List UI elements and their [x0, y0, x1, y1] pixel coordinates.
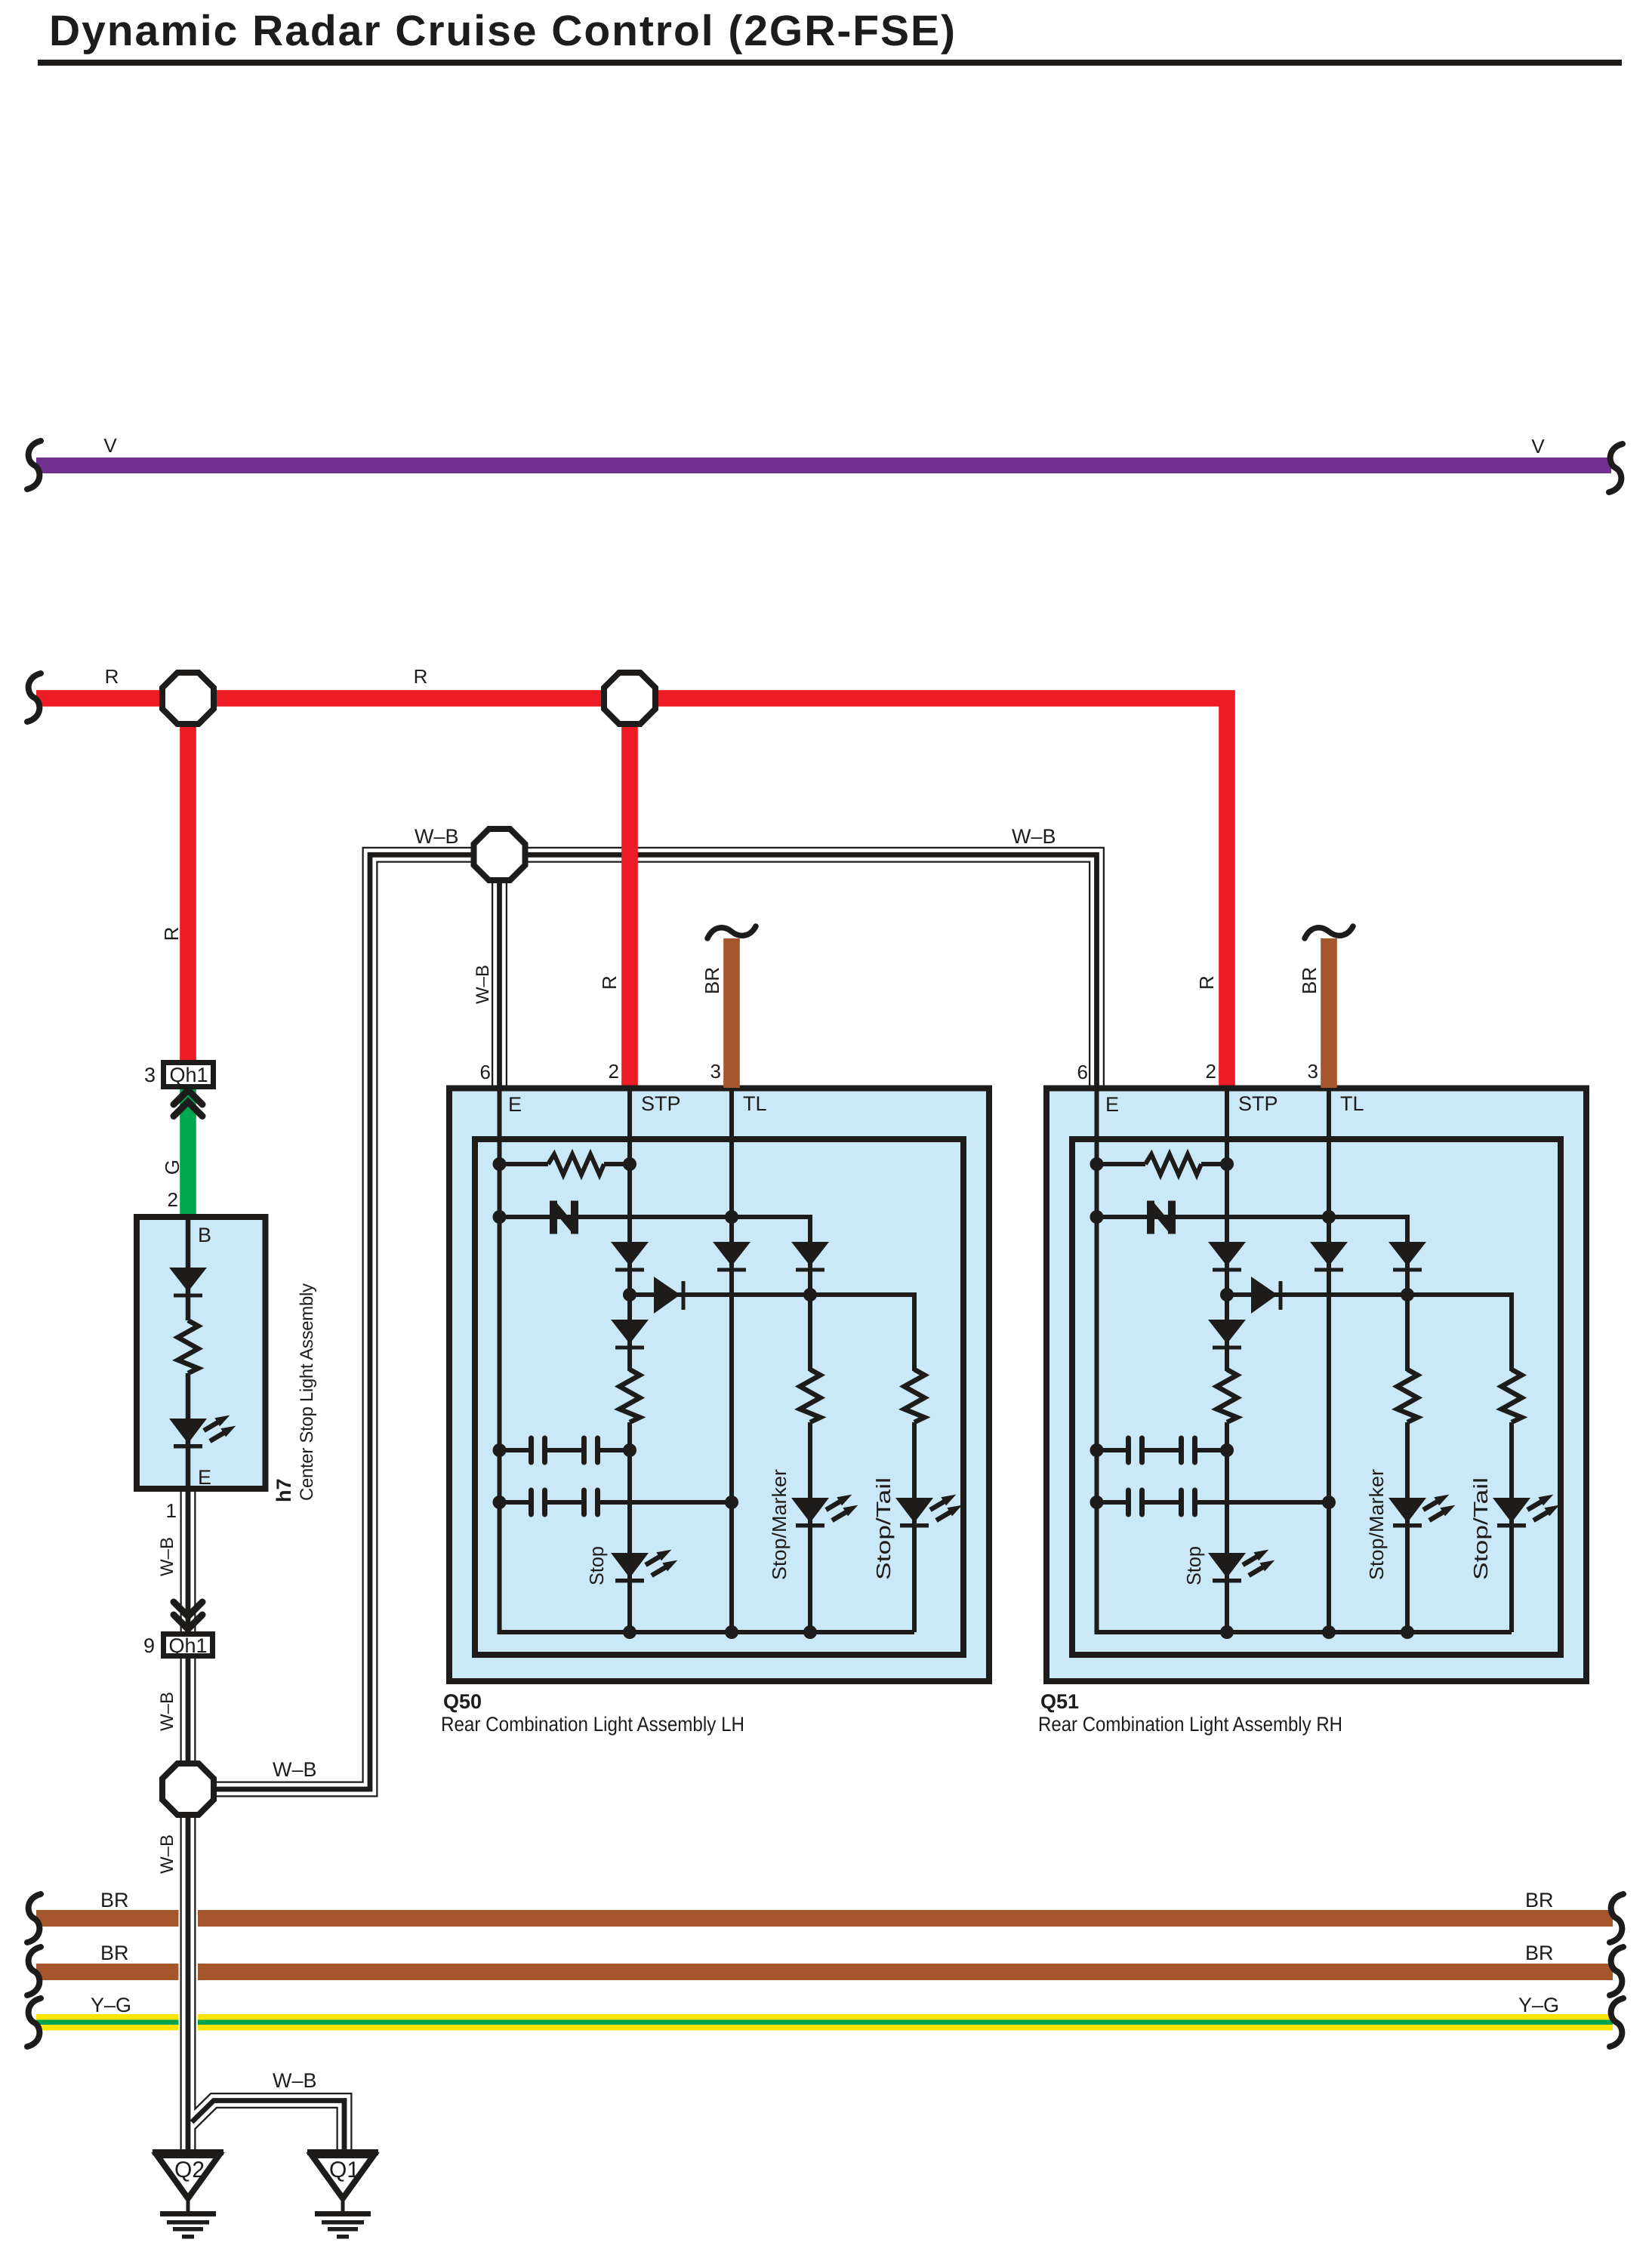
resistor horizontal: [548, 1154, 604, 1175]
svg-text:G: G: [161, 1160, 183, 1175]
svg-text:R: R: [598, 975, 621, 990]
diode on marker column: [791, 1242, 829, 1272]
LED Stop: [611, 1550, 677, 1583]
svg-text:Q2: Q2: [174, 2158, 205, 2182]
resistor row link: [500, 1162, 630, 1166]
ground Q2: [153, 2149, 223, 2239]
svg-text:Stop: Stop: [585, 1546, 608, 1585]
squiggle V right: [1609, 444, 1623, 492]
wire BR lower: [36, 1964, 179, 1980]
svg-text:Y–G: Y–G: [1518, 1994, 1559, 2016]
svg-text:W–B: W–B: [157, 1834, 177, 1874]
svg-text:E: E: [198, 1466, 211, 1489]
resistor on tail column: [905, 1369, 925, 1422]
diode right: [654, 1277, 680, 1314]
svg-text:BR: BR: [701, 967, 723, 994]
svg-text:W–B: W–B: [273, 2069, 317, 2092]
svg-text:TL: TL: [743, 1092, 767, 1115]
tilde on brown pin: [707, 926, 756, 938]
svg-text:3: 3: [710, 1060, 721, 1083]
wire inside h7: [186, 1217, 191, 1489]
svg-text:Stop/Marker: Stop/Marker: [768, 1469, 791, 1580]
svg-text:BR: BR: [1525, 1889, 1554, 1911]
wire W-B main loop: bottom junction to Q51 pin 6: [217, 855, 1097, 1789]
wire R drop to Q50 STP: [621, 698, 638, 1091]
ground Q1: [307, 2149, 378, 2239]
svg-text:Rear Combination Light Assembl: Rear Combination Light Assembly RH: [1038, 1713, 1342, 1736]
svg-text:E: E: [508, 1093, 522, 1116]
connector chevrons up: [174, 1090, 202, 1117]
svg-text:Q50: Q50: [443, 1690, 482, 1713]
squiggle V left: [27, 441, 41, 489]
wire V: [36, 457, 1611, 473]
junction dots: [493, 1157, 818, 1639]
wire Y-G: [36, 2014, 179, 2031]
svg-text:6: 6: [480, 1061, 491, 1083]
svg-text:Qh1: Qh1: [169, 1064, 208, 1086]
LED Stop/Tail: [895, 1495, 962, 1528]
junction J4 (W-B bottom): [162, 1764, 214, 1815]
wire W-B h7 to ground Q2: [180, 1489, 196, 2152]
N coil symbol: [553, 1201, 576, 1234]
wire W-B drop to Q50 pin 6: [492, 850, 507, 1091]
connector chevrons down: [174, 1602, 202, 1629]
svg-text:BR: BR: [100, 1942, 129, 1964]
connector Qh1 pin 3: [164, 1063, 214, 1087]
svg-text:1: 1: [166, 1499, 177, 1522]
title underline: [38, 60, 1622, 66]
svg-text:W–B: W–B: [157, 1692, 177, 1731]
svg-text:9: 9: [143, 1634, 155, 1657]
internal wires: [500, 1088, 915, 1632]
diode in h7: [169, 1268, 207, 1298]
svg-text:3: 3: [144, 1064, 156, 1086]
wire R bus: [36, 698, 1227, 1091]
capacitor row 2: [500, 1500, 732, 1505]
component box: [449, 1089, 989, 1682]
component Q51 (copy of Q50 shifted): [1046, 926, 1586, 1681]
svg-text:2: 2: [609, 1060, 619, 1083]
svg-text:V: V: [103, 434, 117, 457]
svg-text:Y–G: Y–G: [91, 1994, 131, 2016]
svg-text:W–B: W–B: [415, 825, 459, 848]
diode on TL column: [713, 1242, 750, 1272]
connector Qh1 pin 9: [164, 1634, 213, 1656]
wire R drop to Qh1-3: [180, 698, 196, 1062]
resistor on STP column: [620, 1369, 640, 1422]
E column: [500, 1088, 915, 1632]
svg-text:Q51: Q51: [1040, 1690, 1079, 1713]
svg-text:Dynamic Radar Cruise Control (: Dynamic Radar Cruise Control (2GR-FSE): [49, 7, 955, 55]
LED Stop/Marker: [791, 1495, 858, 1528]
svg-text:BR: BR: [100, 1889, 129, 1911]
brown pin TL: [723, 938, 740, 1088]
squiggle R left: [27, 673, 41, 722]
LED in h7: [169, 1415, 236, 1449]
wire G (green): [180, 1089, 196, 1219]
svg-text:W–B: W–B: [157, 1537, 177, 1576]
diode 2 on STP: [611, 1320, 649, 1350]
component h7 box: [137, 1217, 266, 1489]
svg-text:BR: BR: [1525, 1942, 1554, 1964]
diode on STP column: [611, 1242, 649, 1272]
STP column: [627, 1088, 632, 1632]
svg-text:R: R: [105, 665, 119, 688]
svg-text:R: R: [414, 665, 428, 688]
svg-text:B: B: [198, 1224, 211, 1246]
svg-text:W–B: W–B: [473, 965, 493, 1004]
N coil row: [500, 1217, 811, 1632]
svg-text:R: R: [160, 927, 183, 941]
wire BR upper: [36, 1910, 179, 1927]
resistor in h7: [178, 1320, 199, 1373]
wire W-B branch to ground Q1: [188, 2101, 344, 2153]
svg-text:Rear Combination Light Assembl: Rear Combination Light Assembly LH: [441, 1713, 744, 1736]
svg-text:Stop/Tail: Stop/Tail: [872, 1477, 895, 1580]
junction J3 (W-B top): [474, 829, 525, 880]
resistor on marker column: [800, 1369, 821, 1422]
svg-text:2: 2: [168, 1188, 178, 1211]
capacitor plates row 1: [532, 1438, 598, 1514]
svg-text:h7: h7: [273, 1478, 295, 1502]
svg-text:STP: STP: [641, 1092, 681, 1115]
svg-text:Q1: Q1: [329, 2158, 359, 2182]
svg-text:Center Stop Light Assembly: Center Stop Light Assembly: [297, 1283, 317, 1501]
TL column: [729, 1088, 734, 1632]
svg-text:V: V: [1531, 435, 1545, 457]
junction J2: [604, 673, 655, 724]
junction J1: [162, 673, 214, 724]
svg-text:Qh1: Qh1: [168, 1634, 207, 1657]
capacitor row 1: [500, 1448, 630, 1452]
svg-text:W–B: W–B: [273, 1758, 317, 1781]
mid row with T column: [630, 1295, 914, 1632]
svg-text:W–B: W–B: [1012, 825, 1056, 848]
